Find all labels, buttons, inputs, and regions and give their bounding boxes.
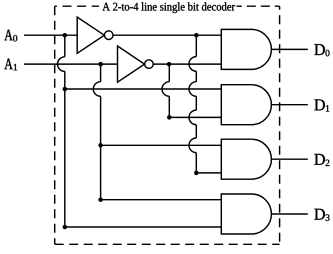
wire A0' row [113,34,221,36]
wire D2 output [271,158,307,160]
label D1 [314,99,329,111]
hop V4 over A0-dist row [189,82,196,97]
wire vertical V2 A1 branch [101,64,222,200]
label D3 [314,209,329,221]
label D2 [314,154,329,166]
hop V4 over A1'-dist row [189,110,196,125]
node A0 corner [63,225,68,230]
hop V4 over A1' row [189,57,196,72]
wire A1 input [24,63,118,65]
and-gate G4 (D3) [221,194,271,234]
dashed enclosure border [55,6,280,244]
title: A 2-to-4 line single bit decoder [102,2,235,13]
inverter U2 (A1) [118,46,145,82]
hop V4 over A1-dist row [189,138,196,153]
and-gate G2 (D1) [221,85,271,125]
node A0' corner [194,171,199,176]
node A1 corner [98,197,103,202]
wire A0 distribution row to gate2 [65,88,222,90]
wire vertical V1 A0 branch [65,35,222,227]
wire vertical V4 A0' branch [196,35,221,173]
label A0 [4,30,17,42]
node A0' branch [194,33,199,38]
wire A1' row [153,63,221,65]
wire D3 output [271,213,307,215]
hop V1 over A1 row [58,57,65,72]
wire D1 output [271,104,307,106]
node A1-dist junction [98,143,103,148]
hop V3 over A0-dist row [162,82,169,97]
and-gate G3 (D2) [221,139,271,179]
wire vertical V3 A1' branch [169,64,221,117]
node A1' corner [167,115,172,120]
label D0 [314,44,329,56]
wire A1 distribution row to gate3 [101,144,222,146]
node A1' branch [167,62,172,67]
wire A0 input [24,34,77,36]
node A0 branch [63,33,68,38]
label A1 [4,59,17,71]
wire D0 output [271,48,307,50]
and-gate G1 (D0) [221,29,271,69]
hop V2 over A0-dist row [93,82,100,97]
node A0-dist junction [63,87,68,92]
inverter U1 (A0) [77,17,104,53]
node A1 branch [98,62,103,67]
